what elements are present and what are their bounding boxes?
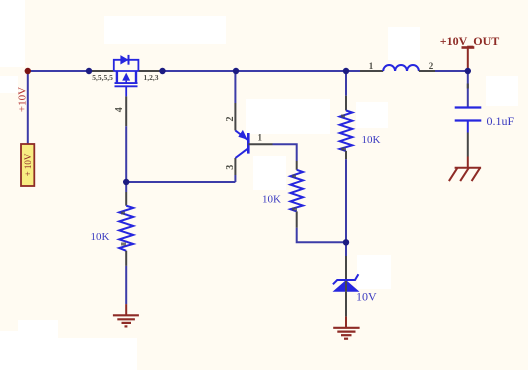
erased-label white patch right of output node (486, 76, 518, 106)
junction dot node C (343, 239, 349, 245)
svg-text:2: 2 (225, 117, 236, 122)
designator remnant speck R2 bottom (341, 148, 346, 151)
body diode triangle (120, 55, 128, 64)
svg-text:10V: 10V (356, 290, 377, 304)
wire short rise to collector stub (234, 175, 236, 182)
wire R1 bottom to ground (125, 266, 127, 304)
MOSFET gate lead (blue part) (125, 86, 127, 96)
wire node D down to resistor R2 (345, 71, 347, 96)
erased-label white patch bottom left lower band (0, 338, 137, 370)
transistor Q2 emitter arrow (PNP, points into base) (238, 130, 247, 140)
wire rail: transistor node to resistor R2 node (236, 70, 346, 72)
svg-text:5,5,5,5: 5,5,5,5 (92, 73, 113, 82)
wire base to middle resistor (273, 144, 297, 161)
MOSFET gate plate line (115, 85, 138, 87)
erased-label white patch right of transistor (246, 99, 330, 134)
pin stub resistor R3 top (296, 161, 298, 170)
MOSFET source contact bar (116, 71, 118, 83)
pin stub resistor R1 top (125, 192, 127, 206)
MOSFET drain contact bar (135, 71, 137, 83)
ground lead (red) (125, 304, 127, 315)
pin stub MOSFET source (pins 5,6,7,8) (89, 70, 114, 72)
erased-label white patch left of middle resistor (253, 156, 286, 190)
designator remnant speck R3 top (292, 175, 296, 178)
designator remnant speck R3 bottom (292, 208, 297, 211)
wire rail: MOSFET drain to transistor emitter node (163, 70, 237, 72)
wire inductor pin2 to output node (435, 70, 468, 72)
wire transistor emitter from rail (234, 71, 236, 103)
svg-text:10K: 10K (91, 231, 110, 243)
pin stub MOSFET gate pin 4 (125, 96, 127, 126)
resistor R2 zigzag (340, 111, 353, 152)
capacitor C1 top plate (455, 106, 482, 108)
svg-text:+10V_OUT: +10V_OUT (440, 34, 500, 48)
pin stub capacitor bottom (467, 133, 469, 157)
pin stub MOSFET drain (pins 1,2,3) (138, 70, 162, 72)
wire capacitor bottom lead (467, 121, 469, 133)
pin stub inductor pin 1 (360, 70, 383, 72)
erased-label white patch top-left corner (0, 0, 25, 67)
wire output node down to capacitor (467, 71, 469, 108)
designator remnant speck R1 top (121, 212, 125, 215)
transistor Q2 emitter segment (235, 131, 248, 141)
junction dot node B (123, 179, 129, 185)
svg-text:1,2,3: 1,2,3 (144, 73, 159, 82)
pin stub transistor pin 2 (emitter) (234, 103, 236, 131)
junction dot output node (465, 68, 471, 74)
pin stub inductor pin 2 (419, 70, 435, 72)
zener D1 cathode bar with bent ends (333, 274, 359, 284)
resistor R3 zigzag (290, 170, 303, 212)
pin stub resistor R1 bottom (125, 251, 127, 266)
pin stub resistor R2 bottom (345, 151, 347, 159)
wire R2 bottom to node C (345, 159, 347, 242)
power port +10V_OUT bar (462, 46, 475, 49)
pin stub through zener (345, 281, 347, 292)
pin stub zener anode (345, 292, 347, 317)
chassis ground symbol under capacitor (449, 168, 481, 181)
junction dot MOSFET drain net (159, 68, 165, 74)
zener D1 triangle (anode, points up) (333, 280, 360, 292)
erased-label white patch bottom left mid band (0, 331, 58, 370)
MOSFET body arrow (points up) (122, 73, 130, 81)
wire zener anode to ground (red) (345, 317, 347, 328)
ground symbol under zener (333, 328, 359, 339)
inductor L1 coil (383, 65, 419, 71)
wire gate down to node B (125, 126, 127, 182)
MOSFET Q1 source-drain bar (114, 70, 139, 72)
designator remnant speck R1 bottom (121, 243, 126, 246)
wire node C to zener (345, 242, 347, 256)
wire rail: R2 node to inductor pin 1 (346, 70, 360, 72)
erased-label white patch top middle (104, 16, 226, 44)
svg-text:10K: 10K (362, 134, 381, 146)
erased-label white patch above inductor (388, 27, 420, 60)
resistor R1 zigzag (119, 206, 133, 251)
pin stub zener cathode (345, 256, 347, 280)
body diode cathode bar (128, 55, 130, 65)
transistor Q2 base bar (247, 133, 250, 154)
MOSFET Q1 body-diode loop (114, 60, 139, 71)
svg-text:2: 2 (429, 61, 434, 71)
svg-text:0.1uF: 0.1uF (487, 114, 515, 128)
designator remnant speck R2 top (341, 115, 345, 118)
erased-label white patch bottom left upper bump (18, 320, 58, 370)
pin stub transistor pin 1 (base) (248, 143, 272, 145)
power port +10V_OUT stem (467, 48, 469, 72)
erased-label white patch right of zener (357, 255, 391, 289)
MOSFET channel line (115, 82, 138, 84)
svg-text:1: 1 (369, 61, 374, 71)
wire +10V source drop (27, 71, 29, 144)
pin stub mark on capacitor top lead (467, 84, 469, 89)
junction dot MOSFET source net (86, 68, 92, 74)
wire R3 bottom to node C (297, 228, 346, 243)
wire node B down to resistor R1 (125, 182, 127, 192)
ground lead (red) (467, 157, 469, 168)
wire +10V rail top: node A to MOSFET source stub (28, 70, 89, 72)
transistor Q2 collector segment (235, 148, 248, 158)
svg-text:+ 10V: + 10V (23, 153, 33, 176)
svg-text:4: 4 (114, 107, 125, 112)
wire node B horizontal to transistor collector (126, 181, 235, 183)
svg-text:3: 3 (225, 165, 236, 170)
pin stub resistor R3 bottom (296, 211, 298, 227)
ground symbol under R1 (113, 315, 139, 326)
svg-text:10K: 10K (262, 194, 281, 206)
junction dot R2 branch (343, 68, 349, 74)
svg-text:+10V: +10V (16, 87, 28, 112)
MOSFET body arrow stem (125, 81, 127, 84)
junction dot transistor emitter branch (233, 68, 239, 74)
svg-text:1: 1 (258, 133, 263, 143)
erased-label white patch left edge (0, 76, 18, 93)
node A junction dot (red) (25, 68, 31, 74)
erased-label white patch right of upper resistor (356, 102, 388, 128)
pin stub transistor pin 3 (collector) (234, 158, 236, 175)
voltage source V1 body (yellow box) (21, 144, 34, 186)
pin stub resistor R2 top (345, 96, 347, 111)
capacitor C1 bottom plate (455, 119, 482, 121)
